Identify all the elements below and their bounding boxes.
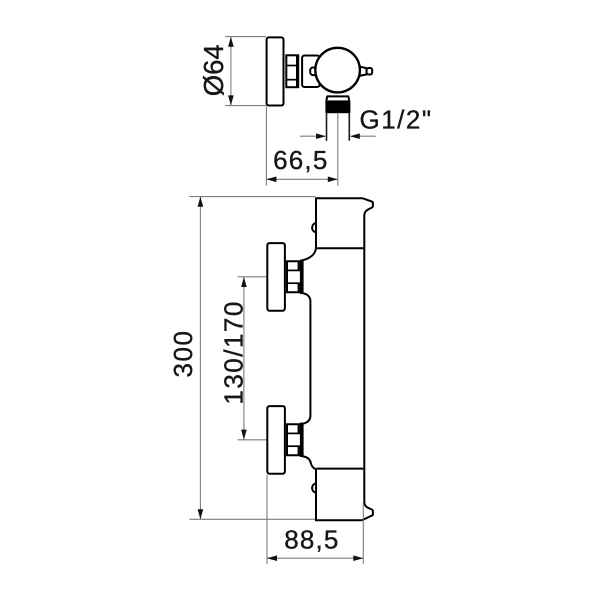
right tab end cap <box>367 68 373 75</box>
dimension G1/2 right arrow <box>350 133 360 139</box>
dimension G1/2 left leader <box>300 135 317 137</box>
svg-text:300: 300 <box>168 330 198 378</box>
lower union nut <box>287 424 301 455</box>
outlet pipe left line <box>326 113 328 141</box>
wall plate (side view) <box>267 37 284 105</box>
dimension Ø64 extension line bottom <box>225 105 266 107</box>
mixer body outline (front view) <box>303 198 373 520</box>
svg-text:130/170: 130/170 <box>218 300 248 404</box>
right tab stem <box>360 67 367 76</box>
dimension 66,5 line <box>266 178 337 180</box>
dimension Ø64 arrow down <box>228 95 234 105</box>
outlet pipe right line <box>348 113 350 141</box>
upper joint bar <box>300 260 304 294</box>
dimension 88,5 extension line left <box>266 475 268 564</box>
dimension 130/170 extension line bottom <box>238 439 269 441</box>
outlet thread (black band) <box>325 100 350 113</box>
dimension 300 line <box>199 197 201 519</box>
dimension 300 extension line bottom <box>189 518 315 520</box>
dimension G1/2 right leader <box>359 135 375 137</box>
dimension 66,5 extension line left <box>265 107 267 186</box>
outlet collar (white band) <box>326 96 349 100</box>
dimension 66,5 arrow left <box>266 177 276 183</box>
dimension 300 extension line top <box>189 196 315 198</box>
upper cap separation line <box>316 247 363 249</box>
dimension 66,5 arrow right <box>328 177 338 183</box>
dimension 130/170 extension line top <box>238 276 269 278</box>
left nub on body <box>310 68 318 76</box>
dimension 88,5 arrow left <box>267 555 277 561</box>
dimension 88,5 line <box>267 557 363 559</box>
dimension 300 arrow down <box>198 509 204 519</box>
union nut (side view) outer <box>286 55 298 87</box>
upper cap nub <box>312 223 316 233</box>
union nut (side view) inner lines <box>286 65 297 67</box>
upper flange (wall plate front) <box>267 243 285 311</box>
lower cap separation line <box>317 468 364 470</box>
svg-text:66,5: 66,5 <box>273 145 328 175</box>
lower flange (wall plate front) <box>267 406 285 474</box>
dimension Ø64 arrow up <box>228 37 234 47</box>
svg-text:Ø64: Ø64 <box>198 44 229 96</box>
lower cap nub <box>312 483 316 493</box>
outlet centerline <box>337 113 339 186</box>
lower joint bar <box>300 423 304 457</box>
dimension 300 arrow up <box>198 197 204 207</box>
dimension 130/170 arrow up <box>241 277 247 287</box>
dimension Ø64 line <box>230 37 232 106</box>
dimension Ø64 extension line top <box>225 36 266 38</box>
svg-text:G1/2": G1/2" <box>360 105 433 135</box>
dimension 88,5 extension line right <box>362 503 364 564</box>
dimension G1/2 left arrow <box>316 133 326 139</box>
dimension 88,5 arrow right <box>353 555 363 561</box>
dimension 130/170 line <box>243 277 245 440</box>
dimension 130/170 arrow down <box>241 430 247 440</box>
valve body (side view) <box>302 56 320 88</box>
upper union nut <box>287 261 301 292</box>
svg-text:88,5: 88,5 <box>284 525 339 555</box>
handle circle <box>315 48 360 93</box>
